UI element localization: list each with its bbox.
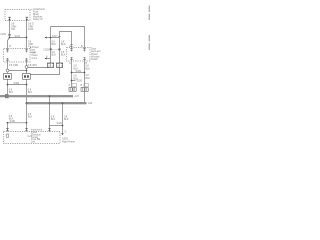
center vertical V1	[50, 27, 52, 64]
wire left below circle	[7, 72, 9, 73]
svg-text:BLK: BLK	[61, 54, 66, 57]
right edge artifact 4	[149, 43, 150, 50]
junction block text	[32, 51, 38, 60]
ground arrow G303	[61, 133, 63, 135]
ground bus A	[0, 95, 73, 97]
pin G left top	[70, 48, 72, 52]
arrowhead	[44, 58, 46, 60]
svg-text:0.8 ORN: 0.8 ORN	[9, 64, 18, 67]
label 0.8 BLK V2 lower	[61, 51, 66, 57]
arrow wire lower A	[45, 58, 51, 60]
svg-text:S420: S420	[57, 122, 63, 125]
label 0.8 ORN mid right	[28, 40, 34, 46]
wire right vertical upper	[26, 21, 28, 49]
connector marks V1 V2 with dashed tie	[50, 48, 52, 50]
pin right top	[25, 49, 28, 53]
junction dot	[26, 70, 28, 72]
V2 vertical	[59, 38, 61, 64]
pin D left	[6, 128, 9, 132]
junction dot	[26, 37, 28, 39]
fuse F2	[26, 17, 29, 21]
label left wire below bus	[9, 115, 14, 121]
fuse F1	[8, 17, 11, 21]
svg-text:1040: 1040	[28, 28, 34, 31]
svg-text:Left: Left	[31, 141, 35, 144]
wire left switch down	[7, 80, 9, 95]
svg-text:BLK: BLK	[52, 43, 57, 46]
fuse block lower (dashed box D)	[4, 132, 61, 144]
wire left vertical upper	[8, 21, 10, 49]
wire left vertical mid	[7, 62, 9, 69]
svg-text:C200: C200	[0, 33, 6, 36]
top horizontal to right column	[51, 27, 85, 48]
box G text right	[91, 47, 101, 61]
svg-text:A24: A24	[88, 102, 93, 105]
junction dots	[7, 84, 9, 86]
label 0.8 BLK lower right	[86, 74, 91, 80]
svg-text:BLK: BLK	[86, 77, 91, 80]
door lock switch right	[23, 74, 31, 80]
svg-text:Locks: Locks	[30, 51, 37, 54]
svg-text:G: G	[65, 130, 67, 133]
right edge artifact 3	[149, 35, 150, 42]
pin left top	[6, 49, 9, 53]
label 0.8 BLK left above bus	[9, 88, 14, 94]
label 0.8 BLK below G left	[74, 65, 79, 71]
arrowhead left	[44, 37, 46, 39]
label 0.8 BLK lower left	[74, 75, 79, 81]
fuse block label text	[31, 8, 46, 21]
junction dot V1	[50, 37, 52, 39]
svg-text:Conn: Conn	[32, 57, 38, 60]
svg-text:BLK: BLK	[51, 118, 56, 121]
pin G right top	[83, 48, 85, 52]
relay wire path	[60, 32, 72, 48]
svg-text:A23: A23	[75, 95, 80, 98]
label 0.8 BLK V1 lower	[52, 51, 57, 57]
pin hatch on path right	[70, 45, 72, 47]
inline connector P2	[56, 63, 62, 68]
pin G right bottom	[83, 57, 85, 61]
stub branch with label	[72, 80, 76, 82]
svg-text:Relay Ctr: Relay Ctr	[33, 18, 43, 21]
wire VL below bus A	[49, 97, 51, 131]
legend text block	[30, 46, 39, 54]
fuse block (dashed box top-left)	[5, 10, 30, 21]
wires below box G	[71, 61, 73, 88]
interior fuse symbol	[6, 134, 9, 137]
svg-text:Switch: Switch	[91, 58, 99, 61]
pin left bottom	[6, 58, 9, 62]
wire left to box D	[7, 123, 9, 132]
pin right bottom	[25, 58, 28, 62]
junction dots bus B	[25, 102, 27, 104]
label 0.8 ORN right fuse	[28, 23, 34, 32]
pin tick on path left	[58, 36, 60, 38]
pin pair right	[81, 88, 88, 92]
wire right switch down	[26, 80, 28, 123]
svg-text:340: 340	[11, 28, 16, 31]
label 0.8 BLK V2	[61, 40, 66, 46]
pin D right	[25, 128, 28, 132]
arrow wire S217	[45, 37, 60, 39]
label VL	[51, 115, 56, 121]
svg-text:BLK: BLK	[52, 54, 57, 57]
splice line y125.5	[50, 125, 63, 127]
label 0.8 BLK below G right	[86, 65, 91, 71]
connector tick on left wire	[8, 34, 11, 35]
svg-text:S310: S310	[77, 80, 83, 83]
splice wire horizontal y38	[10, 37, 27, 39]
junction block (dashed box C)	[4, 49, 31, 63]
svg-text:S217: S217	[52, 35, 58, 38]
svg-text:BLK: BLK	[61, 43, 66, 46]
inline connector P1	[47, 63, 53, 68]
pin D center	[48, 128, 51, 132]
G303 text block	[62, 138, 76, 144]
wire from left circle to right wire	[9, 70, 27, 72]
door lock switch left	[4, 74, 12, 80]
label 0.8 BLK V1	[52, 40, 57, 46]
label right wire below bus	[28, 113, 33, 119]
junction dot bus A	[49, 95, 51, 97]
svg-text:BLK: BLK	[86, 67, 91, 70]
wire right vertical mid	[26, 62, 28, 74]
wire to P2 lower branch	[31, 68, 60, 75]
junction dot left	[9, 37, 11, 39]
wire from right circle to P1	[28, 66, 49, 69]
svg-text:Right Frame: Right Frame	[62, 140, 76, 143]
splice line y84.5	[8, 84, 27, 86]
label 0.8 ORN left fuse	[11, 23, 17, 32]
splice circle left wire	[6, 69, 9, 72]
box D text block	[31, 129, 42, 144]
pin pair left	[69, 88, 76, 92]
right edge artifact 1	[149, 6, 150, 13]
door lock assembly (dashed box G)	[67, 48, 91, 62]
wire VR below bus B	[62, 104, 64, 134]
svg-text:BLK: BLK	[28, 91, 33, 94]
pin pair connector label box right	[84, 84, 89, 87]
label 0.8 BLK right above bus	[28, 88, 33, 94]
svg-text:BLK: BLK	[28, 116, 33, 119]
wire right to box D	[26, 123, 28, 132]
splice line y72.5	[72, 72, 85, 74]
label VR	[64, 115, 69, 121]
right edge artifact 2	[149, 14, 150, 21]
splice circle right wire	[25, 66, 28, 69]
svg-text:0.8 ORN: 0.8 ORN	[28, 64, 37, 67]
splice line y122.8	[8, 122, 27, 124]
ground bus B	[26, 102, 87, 104]
wire pin pair right to bus B	[84, 92, 86, 103]
pin G left bottom	[70, 57, 72, 61]
connector box on bus A	[5, 94, 9, 98]
pin pair connector label box left	[72, 84, 77, 87]
svg-text:BLK: BLK	[9, 91, 14, 94]
svg-text:BLK: BLK	[64, 118, 69, 121]
svg-text:C202: C202	[43, 48, 49, 51]
